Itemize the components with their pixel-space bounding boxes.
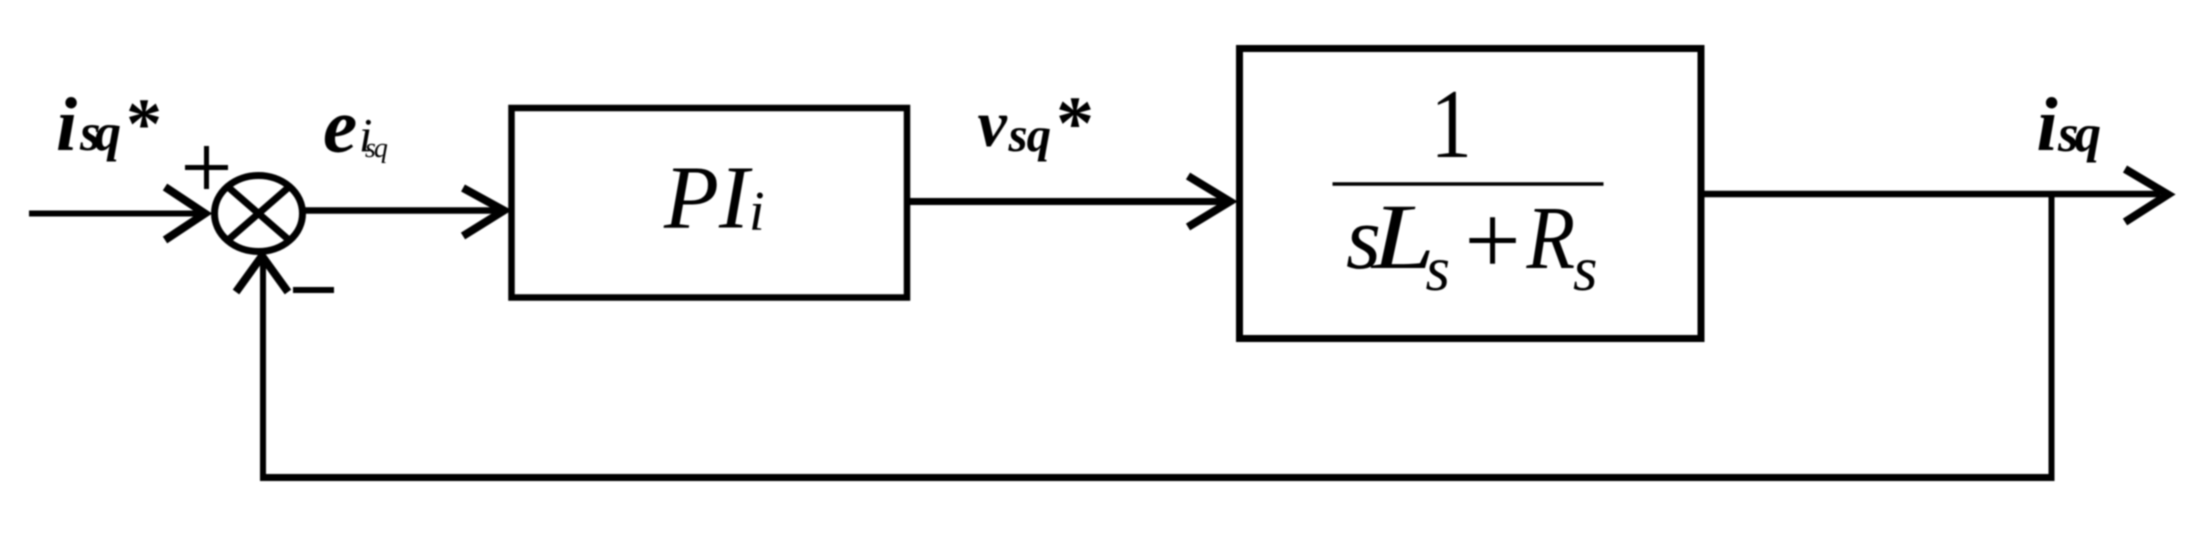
PI block label bbox=[663, 149, 765, 248]
svg-text:s: s bbox=[1573, 234, 1598, 304]
plant denominator sLs + Rs bbox=[1346, 184, 1598, 304]
block PI bbox=[512, 108, 908, 298]
arrowhead into PI bbox=[463, 188, 504, 236]
svg-text:sq: sq bbox=[79, 104, 121, 162]
svg-text:s: s bbox=[1426, 234, 1451, 304]
fraction bar bbox=[1333, 182, 1604, 186]
svg-text:i: i bbox=[56, 83, 77, 167]
summing junction circle bbox=[215, 176, 303, 252]
svg-text:v: v bbox=[978, 88, 1008, 161]
svg-text:sq: sq bbox=[365, 133, 388, 164]
svg-text:R: R bbox=[1526, 189, 1576, 289]
svg-text:i: i bbox=[2037, 83, 2058, 167]
summing junction X line 1 bbox=[228, 187, 290, 241]
input label isq* bbox=[56, 83, 162, 167]
arrowhead into plant bbox=[1188, 176, 1230, 227]
svg-text:*: * bbox=[126, 84, 162, 164]
minus sign bbox=[293, 287, 334, 293]
arrowhead output bbox=[2125, 169, 2168, 222]
arrowhead feedback up bbox=[236, 256, 288, 292]
block plant 1/(sLs+Rs) bbox=[1240, 49, 1702, 339]
output voltage label vsq* bbox=[978, 82, 1095, 166]
error label e_isq bbox=[323, 83, 388, 169]
arrowhead input bbox=[165, 187, 205, 240]
output label isq bbox=[2037, 83, 2101, 167]
svg-text:sq: sq bbox=[1008, 107, 1051, 162]
wire input bbox=[29, 211, 200, 217]
svg-text:i: i bbox=[749, 181, 765, 243]
svg-text:e: e bbox=[323, 83, 357, 169]
summing junction X line 2 bbox=[228, 187, 290, 241]
wire circle to PI bbox=[302, 207, 500, 214]
svg-text:sq: sq bbox=[2057, 105, 2101, 163]
plus sign bbox=[185, 146, 228, 189]
svg-text:PI: PI bbox=[663, 149, 753, 248]
svg-text:+: + bbox=[1464, 184, 1520, 295]
feedback tap vertical wire right bbox=[2049, 191, 2055, 481]
svg-text:1: 1 bbox=[1430, 69, 1472, 178]
svg-text:*: * bbox=[1056, 82, 1094, 166]
wire plant to output bbox=[1701, 191, 2160, 198]
feedback bottom wire bbox=[260, 474, 2055, 481]
feedback vertical wire left bbox=[260, 260, 266, 481]
wire PI to plant bbox=[908, 198, 1228, 205]
